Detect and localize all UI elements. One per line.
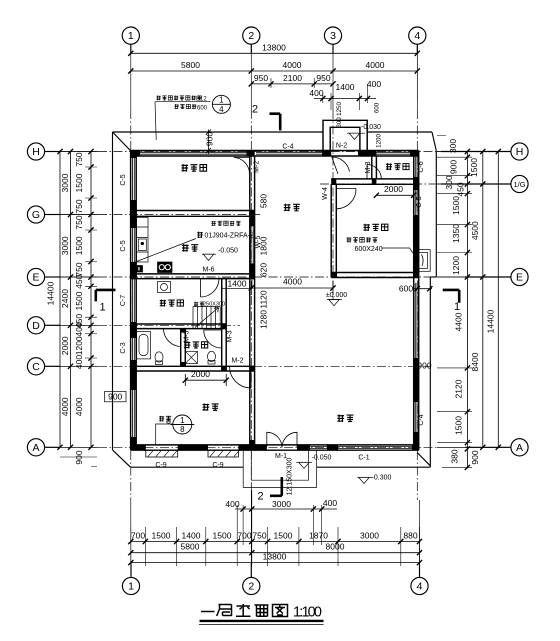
svg-text:13800: 13800 xyxy=(262,43,286,53)
dim line 13800 bottom xyxy=(131,562,420,564)
svg-text:4000: 4000 xyxy=(283,277,302,287)
svg-text:C-1: C-1 xyxy=(358,454,369,461)
svg-text:E: E xyxy=(516,272,523,284)
svg-text:C-4: C-4 xyxy=(418,414,425,425)
bubble A right xyxy=(511,439,528,456)
bubble 2 bottom xyxy=(243,577,260,594)
svg-text:C-9: C-9 xyxy=(155,462,166,469)
svg-text:2000: 2000 xyxy=(60,336,70,355)
eave outline right upper xyxy=(435,151,437,277)
bubble 1 top xyxy=(122,27,139,44)
detail ref circle 1/8 xyxy=(156,415,195,445)
dim 2000 bath xyxy=(185,374,226,386)
svg-text:380: 380 xyxy=(450,449,460,463)
floor drain bedroom xyxy=(167,420,171,424)
svg-text:1500: 1500 xyxy=(469,158,479,177)
grid line G dash-dot xyxy=(98,214,260,216)
grid line 4 vertical dash-dot xyxy=(416,110,418,500)
svg-text:2: 2 xyxy=(258,491,264,503)
svg-text:580: 580 xyxy=(259,194,269,208)
top wall outer/inner lines xyxy=(131,151,419,157)
svg-text:4000: 4000 xyxy=(283,60,302,70)
door M-3 storage xyxy=(367,165,381,180)
wall wc east vertical xyxy=(222,279,227,371)
eave outline left xyxy=(112,132,114,450)
boxed dim 1400 corridor xyxy=(222,278,252,288)
bottom dim ticks xyxy=(128,506,422,565)
svg-text:M-2: M-2 xyxy=(254,161,261,173)
svg-text:1/G: 1/G xyxy=(513,180,525,189)
grid line 3 vertical dash-dot xyxy=(332,110,334,300)
svg-text:1: 1 xyxy=(128,581,134,593)
svg-text:4000: 4000 xyxy=(74,397,84,416)
svg-text:E: E xyxy=(32,272,39,284)
right dim ticks xyxy=(465,149,501,470)
bubble E left xyxy=(27,268,44,285)
grid line 1/G solid stub xyxy=(437,183,511,185)
grid line E solid stubs xyxy=(45,276,511,278)
porch bump small rotated dims xyxy=(336,102,383,148)
wall bath top (D) xyxy=(131,324,226,329)
room label kitchen (chu fang) xyxy=(182,244,198,251)
bubble C left xyxy=(27,358,44,375)
svg-text:M-3: M-3 xyxy=(227,330,234,342)
dim line left col3 xyxy=(90,152,92,448)
grid line H solid stubs xyxy=(45,151,511,153)
svg-text:900: 900 xyxy=(205,132,215,146)
svg-text:8000: 8000 xyxy=(326,542,345,552)
room label worker room (gong ren fang) xyxy=(181,164,206,171)
svg-text:1400: 1400 xyxy=(182,531,201,541)
svg-text:400: 400 xyxy=(74,322,84,336)
svg-text:400: 400 xyxy=(225,499,239,509)
door M-3 wc xyxy=(204,330,222,348)
title underline xyxy=(200,620,324,622)
svg-text:W-4: W-4 xyxy=(322,187,329,200)
eave chamfer bottom-right xyxy=(417,453,430,466)
dim line 5800/4000/4000 top xyxy=(131,70,418,72)
left wall piers xyxy=(131,151,137,159)
boxed dim 900 left bedroom xyxy=(105,392,127,402)
svg-text:A: A xyxy=(516,442,523,454)
svg-text:M-6: M-6 xyxy=(202,267,214,274)
bubble D left xyxy=(27,317,44,334)
bubble 1/G right xyxy=(511,175,528,192)
section marker 1 right xyxy=(443,290,460,303)
shower tray xyxy=(185,351,197,363)
svg-text:1500: 1500 xyxy=(454,416,464,435)
svg-text:600: 600 xyxy=(374,102,381,113)
grid line 1/G dash-dot xyxy=(320,183,437,185)
svg-text:4500: 4500 xyxy=(470,221,480,240)
window left bedroom y390-437 xyxy=(132,390,134,437)
dim line 400/3000/400 porch bottom xyxy=(235,508,337,510)
bubble 1 bottom xyxy=(122,577,139,594)
toilet wc xyxy=(208,351,216,361)
dimension texts top xyxy=(131,43,432,562)
room label stair note xyxy=(194,302,204,307)
stairs xyxy=(193,307,220,329)
wall fill piers xyxy=(131,151,419,451)
svg-text:2000: 2000 xyxy=(384,184,403,194)
right wall lines xyxy=(414,151,419,451)
top wall piers xyxy=(131,151,140,157)
svg-text:620: 620 xyxy=(259,263,269,277)
dim line 14400 right xyxy=(497,152,499,448)
bubble 4 top xyxy=(409,27,426,44)
svg-text:3000: 3000 xyxy=(360,531,379,541)
svg-text:M-3: M-3 xyxy=(184,330,191,342)
room label vent note xyxy=(211,221,240,226)
bubble 3 top xyxy=(324,27,341,44)
dim line 400/1400/400 porch top xyxy=(314,98,376,100)
svg-text:1200: 1200 xyxy=(74,336,84,355)
svg-text:1120: 1120 xyxy=(259,290,269,309)
interior wall junction blocks xyxy=(250,151,255,157)
bubble 4 bottom xyxy=(411,577,428,594)
elevation marker -0.030 xyxy=(347,133,365,139)
bubble A left xyxy=(27,439,44,456)
svg-text:1500: 1500 xyxy=(74,236,84,255)
svg-text:1200: 1200 xyxy=(451,256,461,275)
grid line 4 vertical solid parts xyxy=(417,44,419,577)
svg-text:2: 2 xyxy=(252,104,258,116)
wall worker-room east (x=250) upper xyxy=(250,156,255,216)
svg-text:14400: 14400 xyxy=(486,309,496,333)
room label note line1 xyxy=(157,95,202,100)
room label bedroom (wo shi) xyxy=(203,403,219,410)
room label note char xyxy=(197,232,203,238)
dim line bottom row1 xyxy=(131,541,420,543)
svg-text:1350: 1350 xyxy=(451,224,461,243)
svg-text:1: 1 xyxy=(180,416,185,425)
wall fire-room bottom (E) xyxy=(331,273,419,278)
right wall piers xyxy=(414,151,419,157)
window right living y278-358 xyxy=(415,283,417,358)
wall bath bottom (C) xyxy=(131,366,255,371)
dim 600 right of wall xyxy=(413,288,432,290)
grid line 2 vertical dash-dot xyxy=(250,110,252,488)
svg-text:2400: 2400 xyxy=(60,289,70,308)
svg-text:950: 950 xyxy=(316,73,330,83)
grid line C dash-dot xyxy=(98,365,430,367)
bottom wall lines xyxy=(131,445,419,450)
svg-text:H: H xyxy=(32,146,40,158)
window C-5 left upper y158-200 xyxy=(132,158,134,200)
svg-text:8400: 8400 xyxy=(470,352,480,371)
dim line left col2 xyxy=(70,152,72,448)
top extension lines xyxy=(271,44,417,110)
svg-text:C-4: C-4 xyxy=(282,143,293,150)
windows C-9 bay below bottom wall xyxy=(146,450,239,457)
svg-text:700: 700 xyxy=(131,531,145,541)
svg-text:3000: 3000 xyxy=(60,173,70,192)
svg-text:8: 8 xyxy=(180,425,185,434)
bottom wall piers xyxy=(131,445,146,450)
wall storage bottom (1/G) xyxy=(331,179,419,184)
svg-text:2100: 2100 xyxy=(283,73,302,83)
svg-text:750: 750 xyxy=(252,531,266,541)
bubble E right xyxy=(511,268,528,285)
svg-text:H: H xyxy=(516,146,524,158)
svg-text:1500: 1500 xyxy=(74,291,84,310)
section marker 1 left xyxy=(96,290,116,302)
svg-text:M-3: M-3 xyxy=(365,161,372,173)
svg-text:3000: 3000 xyxy=(60,236,70,255)
svg-text:C-5: C-5 xyxy=(120,174,127,185)
svg-text:4400: 4400 xyxy=(454,312,464,331)
dimension texts left (rotated) xyxy=(46,132,496,465)
window storage top x374-410 xyxy=(374,152,410,154)
grid line 1 vertical solid parts xyxy=(130,44,132,577)
svg-text:250X300: 250X300 xyxy=(203,302,225,308)
svg-text:450: 450 xyxy=(456,182,466,196)
window C-6 right y156-177 xyxy=(415,156,417,177)
svg-text:2: 2 xyxy=(248,581,254,593)
dim 4000 dining xyxy=(251,281,333,295)
svg-text:D: D xyxy=(32,320,40,332)
svg-text:1: 1 xyxy=(128,30,134,42)
door M-2 bedroom xyxy=(230,367,252,389)
eave outline bottom-west xyxy=(131,466,244,468)
door M-1 entry double xyxy=(267,432,282,447)
door W-4 fire room xyxy=(336,189,356,209)
grid line G solid stub xyxy=(45,214,98,216)
flue box fire room xyxy=(415,250,431,272)
svg-text:700: 700 xyxy=(237,531,251,541)
svg-text:2120: 2120 xyxy=(454,379,464,398)
svg-text:C-5: C-5 xyxy=(120,240,127,251)
svg-text:-0.050: -0.050 xyxy=(218,247,238,254)
svg-text:750: 750 xyxy=(74,262,84,276)
svg-text:4000: 4000 xyxy=(60,397,70,416)
room label di lou xyxy=(159,416,171,422)
svg-text:950: 950 xyxy=(254,73,268,83)
svg-text:01J904-ZRFA-2: 01J904-ZRFA-2 xyxy=(205,233,255,240)
svg-text:±0.000: ±0.000 xyxy=(326,292,347,299)
room label storage (chu cang shi) xyxy=(386,163,409,170)
svg-text:C-3: C-3 xyxy=(120,342,127,353)
svg-text:N-2: N-2 xyxy=(336,143,347,150)
svg-text:1500: 1500 xyxy=(274,531,293,541)
svg-text:600: 600 xyxy=(399,284,413,294)
room label fire room (kao huo fang) xyxy=(364,224,388,231)
svg-text:3000: 3000 xyxy=(272,499,291,509)
elevation marker -0.300 xyxy=(358,477,373,483)
svg-text:1280: 1280 xyxy=(259,310,269,329)
grid line A solid stubs xyxy=(45,446,511,448)
eave outline bottom-east xyxy=(317,466,431,468)
svg-text:300: 300 xyxy=(336,117,343,128)
window C-3 left y338-360 xyxy=(132,338,134,360)
svg-text:450: 450 xyxy=(74,274,84,288)
svg-text:C-7: C-7 xyxy=(120,295,127,306)
svg-text:13800: 13800 xyxy=(263,552,287,562)
elevation marker xyxy=(296,462,312,468)
svg-text:14400: 14400 xyxy=(46,281,56,305)
eave outline right lower xyxy=(429,277,431,467)
svg-text:W-5: W-5 xyxy=(255,236,262,249)
eave jog at E xyxy=(430,276,436,278)
svg-text:400: 400 xyxy=(74,355,84,369)
window C-4 worker room top x140-230 xyxy=(140,152,247,154)
svg-text:900: 900 xyxy=(449,160,459,174)
room label laundry (xi yi fang) xyxy=(160,299,184,306)
svg-text:1500: 1500 xyxy=(451,196,461,215)
bubble H left xyxy=(27,143,44,160)
svg-text:A: A xyxy=(32,442,39,454)
svg-text:900: 900 xyxy=(108,392,122,402)
elevation marker &#177;0.000 xyxy=(327,300,342,306)
door M-3 bath left xyxy=(164,329,182,347)
svg-text:300: 300 xyxy=(444,175,454,189)
left dim ticks xyxy=(57,149,93,450)
grid line A dash-dot xyxy=(98,446,437,448)
kitchen stove xyxy=(158,262,173,273)
wall kitchen top (G) xyxy=(131,211,255,217)
svg-text:4: 4 xyxy=(219,105,224,114)
svg-text:C-9: C-9 xyxy=(212,462,223,469)
door N-2 from porch xyxy=(332,157,350,174)
room label dining (can ting) xyxy=(284,204,300,211)
grid line E dash-dot xyxy=(98,276,437,278)
left extension lines xyxy=(50,152,97,467)
svg-text:C-6: C-6 xyxy=(418,161,425,172)
dim line 5800/8000 bottom xyxy=(131,552,420,554)
svg-text:750: 750 xyxy=(74,152,84,166)
wall kitchen bottom xyxy=(131,274,255,279)
window C-4 dining top x258-322 xyxy=(256,152,322,154)
svg-text:-0.050: -0.050 xyxy=(312,455,332,462)
svg-text:5800: 5800 xyxy=(181,60,200,70)
dim line 13800 top xyxy=(131,52,418,54)
room label wc (wei sheng jian) xyxy=(184,341,208,348)
window C-4 right y402-432 xyxy=(415,402,417,432)
window C-1 bottom x338-412 xyxy=(310,447,412,449)
svg-text:12:150X300: 12:150X300 xyxy=(286,458,293,496)
svg-text:400: 400 xyxy=(309,88,323,98)
window C-5 left second y228-262 xyxy=(132,228,134,262)
wall dining east vertical xyxy=(331,184,336,277)
room label living room (ke ting) xyxy=(337,415,353,422)
toilet bath left xyxy=(155,352,163,362)
grid line 1 vertical dash-dot xyxy=(130,110,132,500)
svg-text:2000: 2000 xyxy=(191,369,210,379)
svg-text:4: 4 xyxy=(417,581,423,593)
svg-text:1400: 1400 xyxy=(336,82,355,92)
svg-text:4: 4 xyxy=(414,30,420,42)
dim line right inner chain xyxy=(466,152,468,468)
section marker 2 bottom xyxy=(270,477,282,496)
bubble 2 top xyxy=(243,27,260,44)
eave chamfer top-left xyxy=(113,132,131,151)
wall storage west xyxy=(372,156,377,179)
dim 2000 storage xyxy=(376,194,413,196)
entry porch steps xyxy=(243,450,316,487)
svg-text:900: 900 xyxy=(417,361,431,371)
svg-text:1: 1 xyxy=(100,302,106,314)
eave chamfer bottom-left xyxy=(113,450,131,467)
dim line 950/2100/950 top xyxy=(251,83,333,85)
room label note line2 xyxy=(175,104,197,109)
window C-9 left xyxy=(146,450,178,457)
svg-text:4000: 4000 xyxy=(366,60,385,70)
window W-5 serving hatch corridor wall xyxy=(251,226,253,263)
window C-7 left y279-322 xyxy=(132,279,134,322)
left wall lines xyxy=(131,151,137,451)
grid line D dash-dot xyxy=(98,324,240,326)
svg-text:M-1: M-1 xyxy=(275,453,287,460)
svg-text:880: 880 xyxy=(403,531,417,541)
svg-text:1:100: 1:100 xyxy=(293,605,322,621)
svg-text:900: 900 xyxy=(74,450,84,464)
svg-text:1500: 1500 xyxy=(213,531,232,541)
svg-text:600X240: 600X240 xyxy=(355,246,383,253)
svg-text:300: 300 xyxy=(448,139,458,153)
wall bath divider vertical xyxy=(181,329,186,367)
kitchen counter + sink xyxy=(137,218,149,263)
wall corridor east mid xyxy=(250,216,255,445)
bubble H right xyxy=(511,143,528,160)
svg-text:-0.300: -0.300 xyxy=(372,474,392,481)
porch N-2 walls xyxy=(323,120,367,150)
svg-text:2: 2 xyxy=(248,30,254,42)
elevation marker -0.050 xyxy=(202,254,216,260)
svg-text:900: 900 xyxy=(470,450,480,464)
svg-text:1: 1 xyxy=(454,301,460,313)
kitchen corner cabinet xyxy=(136,266,143,273)
window C-9 right xyxy=(208,450,238,457)
grid line C solid stub xyxy=(45,365,98,367)
svg-text:C-5: C-5 xyxy=(416,196,423,207)
dim line right col 1500/4500/8400 xyxy=(482,152,484,448)
svg-text:M-2: M-2 xyxy=(231,358,243,365)
svg-text:1250: 1250 xyxy=(336,102,343,116)
eave outline top-east xyxy=(367,131,432,133)
svg-text:750: 750 xyxy=(74,199,84,213)
right extension lines xyxy=(437,136,505,468)
title: yi ceng ping mian tu 1:100 xyxy=(201,604,288,617)
svg-text:400: 400 xyxy=(323,498,337,508)
window C-5 right y190-215 xyxy=(415,190,417,215)
door M-2 worker room xyxy=(234,158,250,175)
svg-text:3: 3 xyxy=(330,30,336,42)
svg-text:400: 400 xyxy=(367,79,381,89)
svg-text:1870: 1870 xyxy=(309,531,328,541)
grid line 3 vertical solid part xyxy=(332,44,334,110)
top dim ticks xyxy=(128,51,420,101)
dim line 14400 left xyxy=(59,152,61,448)
room label flue note xyxy=(347,237,378,242)
detail ref circle 1/4 xyxy=(155,95,230,140)
svg-text:C: C xyxy=(32,361,40,373)
bottom extension lines xyxy=(131,490,420,566)
grid line 2 vertical solid parts xyxy=(250,44,252,577)
eave outline top-west xyxy=(113,131,324,133)
svg-text:750: 750 xyxy=(74,215,84,229)
svg-text:600: 600 xyxy=(197,105,208,111)
grid line H dash-dot xyxy=(98,151,437,153)
door M-6 kitchen xyxy=(201,279,220,297)
grid axis lines (dash-dot) xyxy=(45,44,511,577)
section marker 2 top xyxy=(270,114,281,131)
svg-text:1500: 1500 xyxy=(152,531,171,541)
svg-text:1: 1 xyxy=(219,96,224,105)
grid line D solid stub xyxy=(45,324,98,326)
dim 900 eave offset top xyxy=(206,129,211,154)
svg-text:1400: 1400 xyxy=(228,278,247,288)
svg-text:1200: 1200 xyxy=(376,134,383,148)
